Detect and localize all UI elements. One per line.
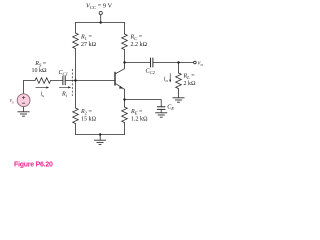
wire RC to collector node xyxy=(124,50,126,63)
wire source top xyxy=(23,81,25,94)
svg-text:vs: vs xyxy=(10,98,15,105)
svg-text:Ri: Ri xyxy=(61,92,68,99)
svg-text:15 kΩ: 15 kΩ xyxy=(81,116,96,122)
svg-text:RS =: RS = xyxy=(34,61,46,68)
node dot output xyxy=(177,61,179,63)
wire emitter node to RE xyxy=(124,100,126,108)
arrow Ri xyxy=(59,86,71,88)
wire CE to ground xyxy=(160,109,162,112)
wire R2 to bottom rail xyxy=(75,124,77,135)
svg-text:10 kΩ: 10 kΩ xyxy=(32,68,47,74)
ground (below source vs) xyxy=(18,112,30,116)
wire output node to terminal xyxy=(179,62,194,64)
wire top rail xyxy=(76,22,125,24)
arrow io xyxy=(169,73,171,82)
wire VCC stem xyxy=(100,15,102,23)
wire source to RS xyxy=(24,80,36,82)
svg-text:1.2 kΩ: 1.2 kΩ xyxy=(131,116,148,122)
resistor RC xyxy=(122,34,128,50)
resistor R2 xyxy=(73,108,79,124)
svg-text:CC1: CC1 xyxy=(59,70,68,77)
svg-text:is: is xyxy=(41,92,45,99)
wire collector rail left part xyxy=(125,62,151,64)
wire source bottom to ground xyxy=(23,107,25,112)
dashed line Ri xyxy=(71,69,73,96)
output terminal circle xyxy=(194,61,197,64)
resistor RL xyxy=(176,73,182,89)
wire CC1 to base junction xyxy=(65,80,75,82)
ground (below RL) xyxy=(173,98,185,102)
svg-text:R2 =: R2 = xyxy=(80,109,92,116)
source vs xyxy=(17,94,30,107)
wire emitter rail to CE xyxy=(125,100,162,107)
capacitor CC1 xyxy=(63,76,65,85)
wire base junction to transistor base xyxy=(76,80,115,82)
node dot VCC xyxy=(100,21,102,23)
arrow is xyxy=(36,86,50,88)
ground (bottom rail) xyxy=(94,135,106,145)
node dot collector xyxy=(123,61,125,63)
svg-text:CE: CE xyxy=(167,105,174,112)
svg-text:R1 =: R1 = xyxy=(80,35,92,42)
node dot base junction xyxy=(74,79,76,81)
wire right branch upper (rail to RC) xyxy=(124,23,126,35)
ground (below CE) xyxy=(155,113,167,117)
svg-text:io: io xyxy=(164,77,169,84)
svg-text:2.2 kΩ: 2.2 kΩ xyxy=(131,42,148,48)
wire RL to ground xyxy=(178,89,180,98)
resistor RE xyxy=(122,107,128,123)
wire output node to RL xyxy=(178,63,180,74)
wire R1 to base junction xyxy=(75,49,77,81)
node dot emitter xyxy=(123,98,125,100)
svg-text:RE =: RE = xyxy=(130,109,143,116)
svg-text:2 kΩ: 2 kΩ xyxy=(184,81,196,87)
svg-text:Figure P6.20: Figure P6.20 xyxy=(14,162,53,169)
wire base junction to R2 xyxy=(75,81,77,109)
svg-text:27 kΩ: 27 kΩ xyxy=(81,42,96,48)
wire left branch upper (rail to R1) xyxy=(75,23,77,34)
resistor RS xyxy=(35,78,51,84)
svg-text:CC2: CC2 xyxy=(146,69,156,76)
svg-text:vo: vo xyxy=(198,61,204,68)
svg-text:RC =: RC = xyxy=(130,35,143,42)
capacitor CC2 xyxy=(151,58,153,67)
transistor Q1 xyxy=(115,63,125,100)
wire CC2 to output node xyxy=(153,62,179,64)
wire RS to CC1 xyxy=(51,80,63,82)
node dot bottom rail xyxy=(99,133,101,135)
resistor R1 xyxy=(73,33,79,49)
wire bottom rail xyxy=(76,134,125,136)
capacitor CE xyxy=(157,107,165,110)
wire RE to bottom rail xyxy=(124,123,126,135)
svg-text:RL =: RL = xyxy=(183,74,196,81)
VCC terminal circle xyxy=(99,11,102,14)
